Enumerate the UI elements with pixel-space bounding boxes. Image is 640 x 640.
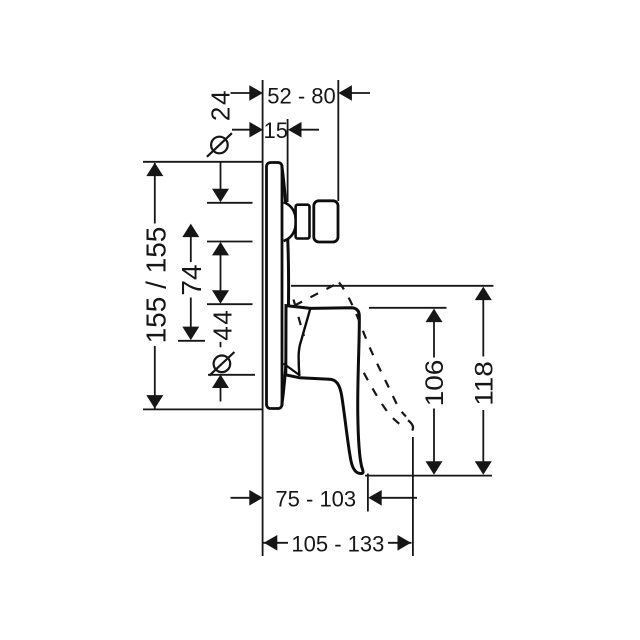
lever dashed raised right edge xyxy=(339,283,406,417)
knob cap xyxy=(314,201,338,242)
extension line 75-103 right xyxy=(367,474,369,512)
lever base bottom-left diagonal xyxy=(284,364,300,376)
svg-text:15: 15 xyxy=(263,118,287,143)
ref line plate top xyxy=(143,161,262,163)
arrow 118 top xyxy=(475,287,492,301)
svg-text:52 - 80: 52 - 80 xyxy=(267,84,336,109)
dim 155/155 line bottom segment xyxy=(154,346,156,409)
svg-text:74: 74 xyxy=(176,264,207,295)
lever handle solid xyxy=(286,306,363,474)
dim D44 space sliver xyxy=(220,342,222,348)
dim D24-D44 shared stem xyxy=(220,254,222,292)
arrow 106 bottom xyxy=(426,461,443,475)
extension line 52-80 right xyxy=(337,80,339,201)
dim 105-133 line left segment xyxy=(264,542,289,544)
arrow 15 right xyxy=(288,122,302,138)
arrow 52-80 left xyxy=(249,85,262,101)
extension line 105-133 right xyxy=(412,437,414,556)
lever dashed raised lower edge near plate xyxy=(294,300,305,337)
svg-text:75 - 103: 75 - 103 xyxy=(275,487,356,512)
arrow D24 top xyxy=(212,189,229,203)
svg-text:118: 118 xyxy=(470,361,498,406)
plate escutcheon body xyxy=(267,163,283,409)
lever dashed raised lower edge right xyxy=(364,373,404,427)
arrow 118 bottom xyxy=(475,461,492,475)
dim 106 lower stem xyxy=(433,409,435,463)
lever base front edge xyxy=(299,309,311,376)
plate convex front face xyxy=(282,166,289,406)
arrow 52-80 right xyxy=(338,85,352,101)
D44 diameter symbol slash xyxy=(209,352,234,376)
arrow 75-103 left xyxy=(249,490,262,506)
svg-text:155 / 155: 155 / 155 xyxy=(141,227,172,344)
dim D24 stem upper xyxy=(220,162,222,190)
dim 118 lower stem xyxy=(482,410,484,463)
svg-text:24: 24 xyxy=(206,89,236,121)
arrow 105-133 right xyxy=(398,535,412,551)
dim 118 upper stem xyxy=(482,299,484,357)
dim D44 lower stem xyxy=(220,387,222,402)
dim 105-133 line right segment xyxy=(388,542,412,544)
arrow D24 bottom xyxy=(212,242,229,256)
D24 diameter symbol slash xyxy=(207,133,232,157)
dim 74 upper stem xyxy=(190,236,192,262)
arrow 75-103 right xyxy=(368,490,382,506)
D44 diameter symbol circle xyxy=(214,356,231,373)
ref line knob top xyxy=(207,202,253,204)
dim 74 lower stem xyxy=(190,298,192,329)
knob mid cylinder xyxy=(296,205,310,239)
knob bulge xyxy=(284,202,296,241)
arrow 15 left xyxy=(249,122,263,138)
ref line 106 top xyxy=(369,307,447,309)
dim 155/155 line top segment xyxy=(154,163,156,224)
ref line lever bottom xyxy=(365,475,492,477)
dim 75-103 left stem xyxy=(231,497,251,499)
svg-text:106: 106 xyxy=(421,360,449,407)
ref line plate bottom xyxy=(143,408,262,410)
arrow 105-133 left xyxy=(264,535,278,551)
arrow D44 top xyxy=(212,290,229,304)
D24 diameter symbol circle xyxy=(211,137,228,154)
svg-text:44: 44 xyxy=(208,309,238,341)
dim 106 upper stem xyxy=(433,321,435,358)
ref line 118 top xyxy=(291,285,493,287)
ref line handle bottom xyxy=(208,374,255,376)
lever dashed raised top edge xyxy=(295,283,340,306)
dim 52-80 right stem xyxy=(351,92,370,94)
arrow 155 top xyxy=(146,163,163,177)
arrow D44 bottom xyxy=(212,375,229,389)
wall line xyxy=(262,80,264,556)
dim 52-80 left stem xyxy=(231,92,251,94)
arrow 106 top xyxy=(426,309,443,323)
dim 15 left stem xyxy=(232,129,250,131)
dim 15 right stem xyxy=(301,129,319,131)
ref line 74 bottom xyxy=(178,340,205,342)
arrow 74 bottom xyxy=(182,327,199,341)
extension line 15 xyxy=(287,119,289,202)
svg-text:105 - 133: 105 - 133 xyxy=(291,531,384,556)
arrow 74 top xyxy=(182,224,199,238)
ref line knob bottom xyxy=(207,241,253,243)
dim 75-103 right stem xyxy=(381,497,417,499)
ref line handle top xyxy=(207,303,253,305)
lever dashed tip hook xyxy=(408,420,413,430)
arrow 155 bottom xyxy=(146,395,163,409)
